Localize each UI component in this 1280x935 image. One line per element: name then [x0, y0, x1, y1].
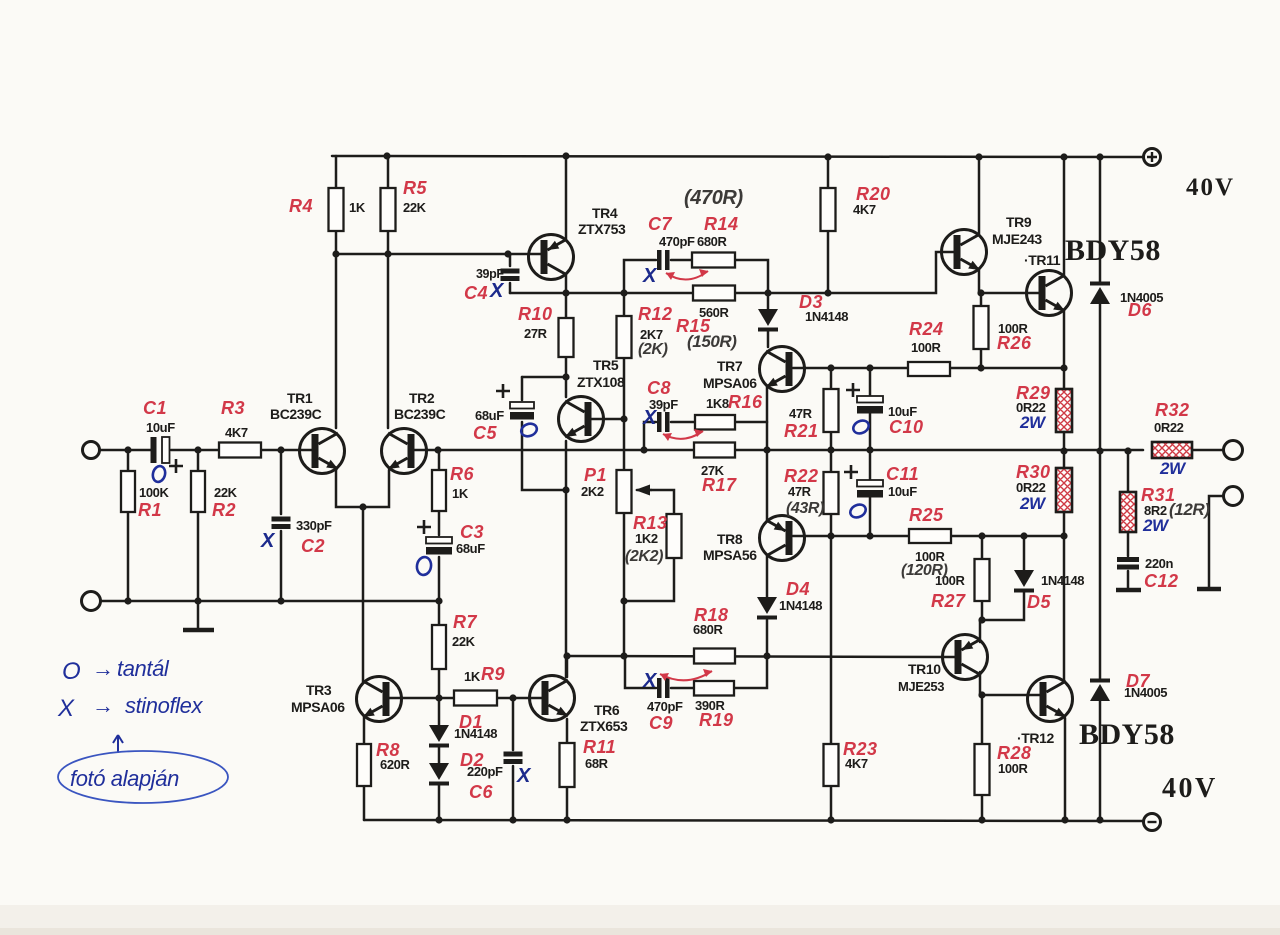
svg-text:470pF: 470pF — [659, 234, 695, 249]
svg-text:tantál: tantál — [117, 656, 170, 681]
svg-text:C12: C12 — [1144, 571, 1179, 591]
svg-text:R22: R22 — [784, 466, 819, 486]
svg-text:TR2: TR2 — [409, 390, 435, 406]
svg-text:C3: C3 — [460, 522, 484, 542]
svg-text:ZTX108: ZTX108 — [577, 374, 625, 390]
svg-text:C7: C7 — [648, 214, 672, 234]
svg-text:2W: 2W — [1019, 413, 1047, 432]
svg-text:BC239C: BC239C — [394, 406, 446, 422]
svg-text:22K: 22K — [214, 485, 238, 500]
svg-text:TR6: TR6 — [594, 702, 620, 718]
svg-text:D3: D3 — [799, 292, 823, 312]
svg-text:(470R): (470R) — [684, 187, 743, 209]
svg-text:C5: C5 — [473, 423, 497, 443]
svg-text:TR5: TR5 — [593, 357, 619, 373]
svg-text:→: → — [92, 656, 114, 681]
svg-text:330pF: 330pF — [296, 518, 332, 533]
svg-text:39pF: 39pF — [476, 267, 504, 281]
svg-text:100R: 100R — [998, 761, 1028, 776]
svg-text:D2: D2 — [460, 750, 484, 770]
svg-text:220n: 220n — [1145, 556, 1173, 571]
svg-text:1K2: 1K2 — [635, 531, 658, 546]
svg-text:X: X — [260, 530, 276, 552]
svg-text:R27: R27 — [931, 591, 966, 611]
svg-text:ZTX753: ZTX753 — [578, 221, 626, 237]
svg-text:R18: R18 — [694, 605, 729, 625]
svg-text:1K: 1K — [464, 669, 481, 684]
svg-text:27R: 27R — [524, 326, 548, 341]
svg-text:(150R): (150R) — [687, 332, 737, 351]
svg-text:R7: R7 — [453, 612, 477, 632]
svg-text:47R: 47R — [788, 484, 812, 499]
svg-text:R9: R9 — [481, 664, 505, 684]
svg-text:TR9: TR9 — [1006, 214, 1032, 230]
svg-text:10uF: 10uF — [146, 420, 175, 435]
svg-text:100R: 100R — [911, 340, 941, 355]
svg-text:D1: D1 — [459, 712, 483, 732]
svg-text:1N4148: 1N4148 — [1041, 573, 1084, 588]
svg-text:TR1: TR1 — [287, 390, 313, 406]
svg-text:68R: 68R — [585, 756, 609, 771]
svg-text:R23: R23 — [843, 739, 878, 759]
svg-text:R6: R6 — [450, 464, 474, 484]
svg-text:TR10: TR10 — [908, 661, 941, 677]
svg-text:C1: C1 — [143, 398, 167, 418]
svg-text:D5: D5 — [1027, 592, 1051, 612]
svg-text:X: X — [642, 265, 658, 287]
svg-text:R1: R1 — [138, 500, 162, 520]
svg-text:R3: R3 — [221, 398, 245, 418]
svg-text:C6: C6 — [469, 782, 493, 802]
svg-text:X: X — [516, 765, 532, 787]
svg-text:MJE243: MJE243 — [992, 231, 1042, 247]
svg-text:ZTX653: ZTX653 — [580, 718, 628, 734]
svg-text:X: X — [57, 695, 75, 722]
svg-text:X: X — [642, 670, 658, 692]
svg-text:C9: C9 — [649, 713, 673, 733]
svg-text:R16: R16 — [728, 392, 763, 412]
svg-text:68uF: 68uF — [475, 408, 504, 423]
svg-text:100K: 100K — [139, 485, 169, 500]
svg-text:2K7: 2K7 — [640, 327, 663, 342]
svg-text:R13: R13 — [633, 513, 668, 533]
svg-text:R21: R21 — [784, 421, 819, 441]
svg-text:C10: C10 — [889, 417, 924, 437]
svg-text:2W: 2W — [1019, 494, 1047, 513]
svg-text:(2K): (2K) — [638, 341, 668, 358]
svg-text:BDY58: BDY58 — [1079, 718, 1175, 751]
svg-text:R24: R24 — [909, 319, 944, 339]
svg-text:22K: 22K — [452, 634, 476, 649]
svg-text:R12: R12 — [638, 304, 673, 324]
svg-text:R14: R14 — [704, 214, 739, 234]
svg-text:C4: C4 — [464, 283, 488, 303]
svg-text:22K: 22K — [403, 200, 427, 215]
svg-text:R10: R10 — [518, 304, 553, 324]
svg-text:R2: R2 — [212, 500, 236, 520]
svg-text:BC239C: BC239C — [270, 406, 322, 422]
svg-text:MJE253: MJE253 — [898, 679, 944, 694]
svg-text:→: → — [92, 693, 114, 718]
svg-text:D4: D4 — [786, 579, 810, 599]
svg-text:40V: 40V — [1162, 773, 1218, 804]
svg-text:47R: 47R — [789, 406, 813, 421]
svg-text:MPSA06: MPSA06 — [291, 699, 345, 715]
svg-text:1K: 1K — [349, 200, 366, 215]
svg-text:68uF: 68uF — [456, 541, 485, 556]
svg-text:4K7: 4K7 — [225, 425, 248, 440]
svg-text:C11: C11 — [886, 464, 919, 484]
svg-text:·TR11: ·TR11 — [1024, 252, 1061, 268]
svg-text:(120R): (120R) — [901, 562, 948, 579]
svg-text:R30: R30 — [1016, 462, 1051, 482]
svg-text:stinoflex: stinoflex — [125, 693, 204, 718]
svg-text:2K2: 2K2 — [581, 484, 604, 499]
svg-text:R4: R4 — [289, 196, 313, 216]
svg-text:R32: R32 — [1155, 400, 1190, 420]
svg-text:(43R): (43R) — [786, 500, 824, 517]
svg-text:1K8: 1K8 — [706, 396, 729, 411]
svg-text:TR4: TR4 — [592, 205, 618, 221]
svg-text:R25: R25 — [909, 505, 944, 525]
svg-text:0R22: 0R22 — [1016, 480, 1046, 495]
svg-text:R5: R5 — [403, 178, 427, 198]
svg-text:10uF: 10uF — [888, 484, 917, 499]
svg-text:1N4148: 1N4148 — [779, 598, 822, 613]
svg-text:4K7: 4K7 — [853, 202, 876, 217]
svg-text:680R: 680R — [697, 234, 727, 249]
svg-text:R8: R8 — [376, 740, 400, 760]
svg-text:TR3: TR3 — [306, 682, 332, 698]
svg-text:R29: R29 — [1016, 383, 1051, 403]
svg-text:X: X — [642, 407, 658, 429]
svg-text:(2K2): (2K2) — [625, 548, 663, 565]
svg-text:R17: R17 — [702, 475, 737, 495]
svg-text:R28: R28 — [997, 743, 1032, 763]
svg-text:1K: 1K — [452, 486, 469, 501]
svg-text:(12R): (12R) — [1169, 500, 1210, 519]
svg-text:2W: 2W — [1159, 459, 1187, 478]
svg-text:2W: 2W — [1142, 516, 1170, 535]
svg-text:R26: R26 — [997, 333, 1032, 353]
svg-text:TR8: TR8 — [717, 531, 743, 547]
svg-text:P1: P1 — [584, 465, 607, 485]
svg-text:X: X — [489, 280, 505, 302]
svg-text:R19: R19 — [699, 710, 734, 730]
svg-text:MPSA56: MPSA56 — [703, 547, 757, 563]
svg-text:40V: 40V — [1186, 174, 1235, 201]
svg-text:C2: C2 — [301, 536, 325, 556]
svg-text:BDY58: BDY58 — [1065, 234, 1161, 267]
svg-text:TR7: TR7 — [717, 358, 743, 374]
svg-text:470pF: 470pF — [647, 699, 683, 714]
svg-text:D7: D7 — [1126, 671, 1150, 691]
svg-text:O: O — [62, 658, 80, 685]
svg-text:R11: R11 — [583, 737, 616, 757]
svg-text:MPSA06: MPSA06 — [703, 375, 757, 391]
svg-text:C8: C8 — [647, 378, 671, 398]
svg-text:R20: R20 — [856, 184, 891, 204]
svg-text:fotó alapján: fotó alapján — [70, 766, 179, 791]
svg-text:0R22: 0R22 — [1154, 420, 1184, 435]
svg-text:D6: D6 — [1128, 300, 1152, 320]
